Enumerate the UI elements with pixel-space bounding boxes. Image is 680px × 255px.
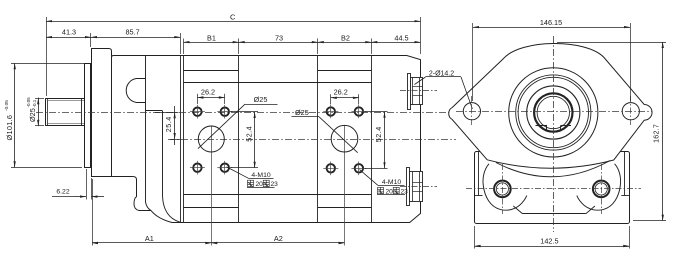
svg-text:41.3: 41.3: [62, 27, 76, 36]
side port boss (D-shape) on bearing housing: [126, 79, 145, 103]
right view horizontal centerline: [456, 111, 652, 113]
rear port boss top (side view): [400, 74, 437, 110]
svg-text:162.7: 162.7: [654, 124, 661, 143]
svg-text:142.5: 142.5: [540, 237, 558, 246]
svg-text:A2: A2: [274, 234, 283, 243]
dimension 25.4 shaft-to-gear offset: [155, 106, 181, 145]
M10 hole s2 bottom-left: [327, 164, 335, 172]
label 4-M10 depth note section1: [227, 167, 279, 188]
svg-text:85.7: 85.7: [125, 27, 139, 36]
dimension dia101.6 spigot: [4, 63, 84, 167]
gear housing 1 left joint line: [183, 55, 185, 222]
M10 hole s1 top-right: [221, 108, 229, 116]
lower bolt hole left: [494, 181, 511, 198]
drive shaft (threaded end): [46, 98, 86, 126]
dimension 26.2 section1: [197, 88, 224, 104]
label dia25 gear1: [245, 95, 277, 105]
dimension dia25 shaft: [26, 97, 44, 126]
svg-text:6.22: 6.22: [56, 189, 69, 196]
svg-text:52.4: 52.4: [244, 126, 253, 142]
svg-text:B1: B1: [207, 33, 216, 42]
bottom protrusion of front cover: [513, 206, 595, 214]
M10 hole s2 top-right: [355, 107, 363, 115]
label 4-M10 depth note section2: [360, 170, 409, 196]
svg-text:26.2: 26.2: [201, 88, 215, 97]
M10 hole s2 top-left: [327, 107, 335, 115]
svg-text:-0.1: -0.1: [32, 99, 37, 107]
front mounting flange plate: [92, 49, 112, 177]
bearing housing front step outline: [146, 56, 181, 223]
svg-text:A1: A1: [145, 234, 154, 243]
svg-text:26.2: 26.2: [334, 88, 348, 97]
M10 hole s2 bottom-right: [355, 164, 363, 172]
dimension A1: [92, 179, 211, 246]
svg-text:Ø25: Ø25: [254, 95, 268, 104]
shaft circle: [527, 86, 580, 139]
pump body outer outline: [112, 56, 421, 223]
chain dimensions B1 73 B2 44.5: [184, 33, 421, 54]
svg-text:Ø101.6: Ø101.6: [5, 115, 14, 141]
pilot ring outer: [516, 75, 591, 150]
dimension A2: [211, 234, 344, 244]
front cover lower arc: [496, 161, 610, 177]
leader through gear 2: [319, 117, 358, 153]
front boss circle: [509, 68, 598, 157]
body inner edge left: [478, 151, 480, 195]
gear 2 axis extension line: [344, 126, 346, 246]
svg-text:C: C: [230, 12, 236, 21]
main shaft centerline (left view): [36, 112, 458, 114]
lower hole left vertical centerline: [502, 164, 504, 214]
dimension 146.15: [473, 18, 631, 101]
svg-text:4-M10: 4-M10: [251, 172, 270, 179]
mounting hole right dia14.2: [622, 103, 639, 120]
gear housing 2 boss lines: [318, 70, 372, 72]
dimension 6.22 spigot protrusion: [52, 169, 104, 200]
dimension 41.3: [46, 27, 91, 47]
key flats and keyway slot: [536, 126, 572, 132]
gear housing 2 left joint line: [317, 55, 319, 222]
right ear lobe: [577, 164, 621, 210]
label 2-dia14.2 with leaders: [415, 71, 473, 109]
lower bolt hole right: [593, 181, 610, 198]
dimension 52.4 section1: [231, 112, 259, 168]
gear bore circle 1 (dia 25): [198, 126, 224, 152]
mounting flange plate outline (end view): [449, 44, 652, 169]
svg-text:Ø25: Ø25: [28, 108, 37, 122]
M10 hole s1 top-left: [193, 108, 201, 116]
svg-text:4-M10: 4-M10: [382, 179, 401, 186]
rear body block (end view): [475, 152, 630, 224]
dimension 162.7: [557, 42, 666, 221]
gear 1 axis extension line: [211, 126, 213, 245]
leader through gear 1: [198, 104, 245, 149]
svg-text:44.5: 44.5: [394, 33, 408, 42]
shaft inner circle: [537, 96, 569, 128]
mounting hole left dia14.2: [463, 103, 480, 120]
dimension 26.2 section2: [331, 88, 359, 105]
mounting hole left vertical centerline: [471, 96, 473, 127]
svg-text:Ø25: Ø25: [295, 108, 309, 117]
body seam at end of 85.7: [180, 55, 182, 222]
M10 hole s1 bottom-left: [193, 164, 201, 172]
dimension C overall length: [46, 12, 421, 96]
dimension 52.4 section2: [365, 112, 388, 169]
rear port boss bottom (side view): [400, 168, 437, 206]
gear axis centerline (left view): [168, 139, 456, 141]
gear housing 2 right joint line: [371, 55, 373, 222]
body inner edge right: [624, 151, 626, 195]
svg-text:73: 73: [275, 33, 283, 42]
pilot ring inner: [518, 77, 588, 147]
gear housing 1 boss lines: [184, 70, 239, 72]
svg-text:-0.05: -0.05: [4, 100, 10, 111]
dimension 142.5: [475, 226, 630, 249]
M10 hole s1 bottom-right: [221, 164, 229, 172]
right view vertical centerline: [553, 36, 555, 232]
svg-text:52.4: 52.4: [374, 126, 383, 142]
svg-text:146.15: 146.15: [540, 18, 562, 27]
left ear lobe: [483, 164, 527, 210]
label dia25 gear2: [291, 108, 319, 117]
gear bore circle 2 (dia 25): [331, 125, 358, 152]
mounting hole right vertical centerline: [630, 96, 632, 127]
mounting spigot dia 101.6: [85, 64, 91, 168]
dimension 85.7: [91, 27, 181, 54]
svg-text:25.4: 25.4: [164, 116, 173, 132]
lower hole right vertical centerline: [601, 164, 603, 214]
lower holes horizontal centerline: [466, 188, 641, 190]
svg-text:B2: B2: [341, 33, 350, 42]
gear housing 1 right joint line: [238, 55, 240, 222]
svg-text:-0.05: -0.05: [26, 97, 31, 108]
shaft bore circle (bold): [534, 93, 572, 131]
